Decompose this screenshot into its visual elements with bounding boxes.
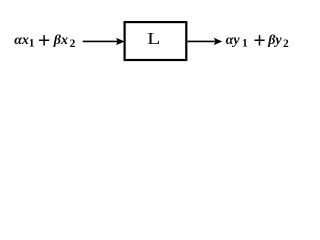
- svg-text:αx: αx: [14, 33, 29, 48]
- svg-text:+: +: [38, 28, 51, 53]
- svg-text:+: +: [253, 28, 266, 53]
- svg-text:2: 2: [70, 38, 76, 50]
- svg-text:2: 2: [283, 38, 289, 50]
- svg-text:1: 1: [242, 38, 248, 50]
- svg-text:L: L: [147, 30, 160, 49]
- svg-text:1: 1: [29, 38, 35, 50]
- svg-text:βy: βy: [267, 33, 282, 48]
- svg-text:βx: βx: [53, 33, 68, 48]
- svg-text:αy: αy: [226, 33, 241, 48]
